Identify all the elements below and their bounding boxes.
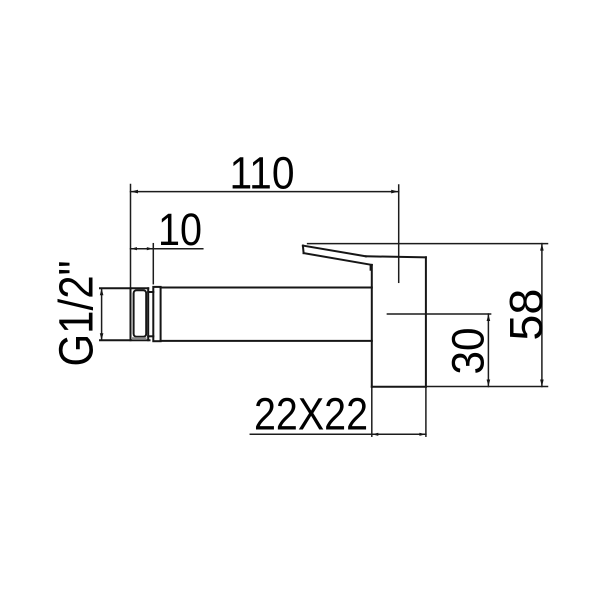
component: flap top slant edge <box>303 246 366 257</box>
component: thread inner profile rounded <box>134 290 147 337</box>
wire: dim G1/2 dimension line <box>101 288 103 340</box>
wire: dim 110 dimension line <box>131 191 399 193</box>
component: pipe bottom edge <box>161 340 372 342</box>
component: flange bottom edge <box>372 386 426 388</box>
wire: dim 30 leader line at pipe axis <box>387 313 490 315</box>
node: dim 10 left arrow <box>131 247 138 250</box>
wire: dim 10 dimension line <box>131 248 203 250</box>
svg-text:110: 110 <box>230 148 295 199</box>
component: thread outer top edge with G extension <box>100 287 148 289</box>
node: dim G1/2 top arrow <box>100 288 104 295</box>
node: dim 10 right arrow <box>147 247 154 250</box>
component: flap top horizontal edge <box>366 256 426 257</box>
svg-text:G1/2": G1/2" <box>51 261 104 367</box>
component: neck bottom edge <box>148 335 153 337</box>
wire: dim 58 extension line top <box>308 243 548 245</box>
component: flap bottom slant edge <box>304 253 372 265</box>
node: dim 110 right arrow <box>391 190 399 194</box>
component: thread bottom shade <box>132 337 147 340</box>
wire: dim 22X22 dimension line <box>250 433 426 435</box>
node: dim G1/2 bottom arrow <box>100 333 104 340</box>
component: collar rectangle <box>153 287 160 341</box>
wire: dim 22X22 extension line left <box>371 387 373 436</box>
wire: dim 30 dimension line <box>487 314 489 387</box>
wire: dim 110 extension line left <box>130 185 132 289</box>
component: thread left edge <box>130 288 132 340</box>
wire: dim 58 dimension line <box>541 244 543 387</box>
component: flange right edge <box>425 257 427 387</box>
wire: dim 22X22 extension line right <box>425 387 427 436</box>
component: flange left edge <box>371 265 373 387</box>
component: pipe top edge <box>161 287 372 289</box>
svg-text:58: 58 <box>500 289 552 341</box>
node: dim 30 bottom arrow <box>487 380 491 387</box>
component: thread outer right edge <box>147 288 149 340</box>
component: flap tip left edge <box>302 246 305 254</box>
node: dim 30 top arrow <box>487 314 491 321</box>
component: thread outer bottom edge with G extension <box>100 339 150 341</box>
wire: dim 110 extension line right <box>398 185 400 282</box>
svg-text:30: 30 <box>442 328 493 375</box>
svg-text:10: 10 <box>158 204 202 255</box>
component: flap flange junction tick <box>370 265 372 271</box>
component: neck top edge <box>148 291 153 293</box>
node: dim 58 bottom arrow <box>540 380 544 387</box>
wire: dim 10 extension line right <box>152 244 154 284</box>
node: dim 58 top arrow <box>540 244 544 251</box>
wire: dim 58 extension line bottom from flange <box>426 386 548 388</box>
node: dim 110 left arrow <box>131 190 139 194</box>
svg-text:22X22: 22X22 <box>254 389 368 440</box>
node: dim 22X22 left arrow <box>372 433 379 436</box>
node: dim 22X22 right arrow <box>419 433 426 436</box>
